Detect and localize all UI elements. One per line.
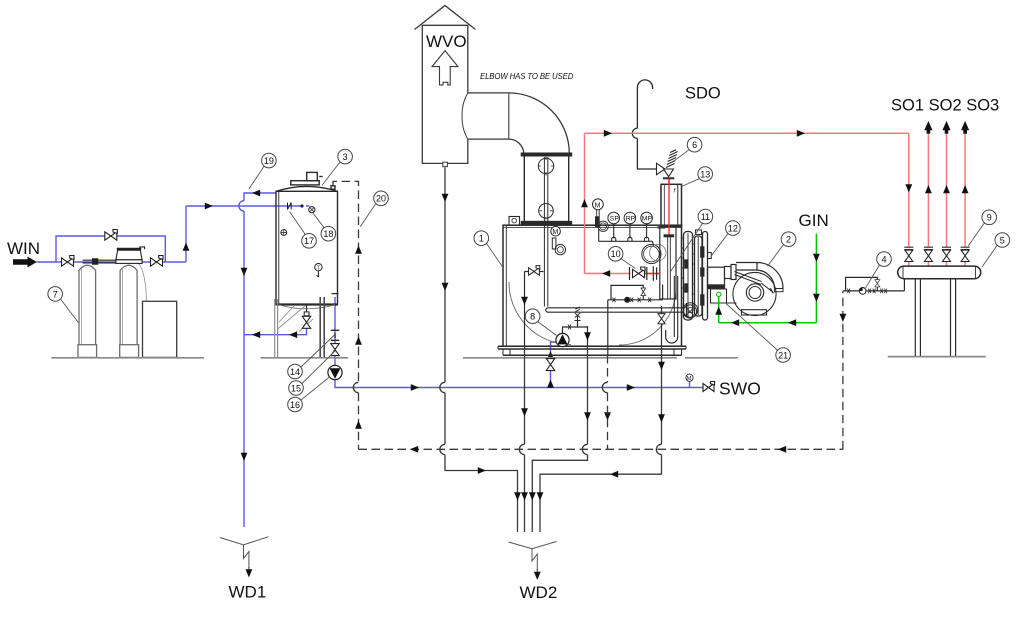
valve relief body xyxy=(657,163,666,174)
pipe steam boiler outlet xyxy=(585,273,631,275)
balloon 12 xyxy=(726,221,741,236)
pump 16 xyxy=(328,365,342,379)
pipe steam SO1 supply xyxy=(908,133,910,247)
relief pump8 xyxy=(575,321,581,328)
arrow WVO drain down 2 xyxy=(442,283,449,291)
arrow riser up xyxy=(183,243,190,251)
piping pump8 discharge xyxy=(563,316,588,334)
leg tank left xyxy=(275,299,278,357)
fitting check pump8 xyxy=(568,325,571,330)
pump 8 boiler feed xyxy=(556,333,569,346)
svg-text:SDO: SDO xyxy=(685,85,721,103)
valve M feedwater xyxy=(593,199,609,232)
arrow dashed20 up 1 xyxy=(355,246,362,254)
leader 17 xyxy=(290,212,306,235)
arrow SO3 up xyxy=(943,185,950,193)
svg-text:10: 10 xyxy=(611,249,621,259)
adapter burner rings xyxy=(725,267,732,279)
drum header xyxy=(898,266,981,279)
node feed dot xyxy=(300,204,303,207)
pipe steam SO2 xyxy=(927,134,929,247)
svg-text:16: 16 xyxy=(290,400,300,410)
balloon 4 xyxy=(877,252,892,267)
base softener tank 1 xyxy=(78,345,97,358)
nub duct bottom xyxy=(443,162,448,166)
svg-text:5: 5 xyxy=(1000,235,1005,245)
elbow duct outer xyxy=(468,93,570,153)
leader 16 xyxy=(301,377,330,400)
hop pump8 drain over dashed xyxy=(582,444,587,454)
svg-text:WD1: WD1 xyxy=(229,583,267,602)
legs header xyxy=(915,279,955,357)
thermometer T xyxy=(315,264,322,271)
pipe steam main riser xyxy=(584,133,586,273)
trap pump dot xyxy=(859,288,866,295)
valve 17 check xyxy=(281,203,322,278)
svg-text:14: 14 xyxy=(290,367,300,377)
arrow steam right 2 xyxy=(797,130,805,137)
arrow funnel line2 down xyxy=(521,492,528,500)
arrow feed right xyxy=(205,203,213,210)
base softener tank 2 xyxy=(120,345,139,358)
tank bottom xyxy=(276,303,338,305)
loop level control xyxy=(608,285,663,300)
hop overflow over feed xyxy=(239,201,244,211)
plate boiler door C xyxy=(703,232,708,321)
meter M SWO xyxy=(686,374,693,381)
spring relief xyxy=(666,150,678,168)
balloon 20 xyxy=(374,191,389,206)
svg-text:1: 1 xyxy=(479,234,484,244)
tank brine xyxy=(143,301,177,357)
hop stack drain over dashed xyxy=(519,444,524,454)
svg-text:20: 20 xyxy=(376,194,386,204)
arrow WVO hollow up xyxy=(432,51,458,85)
svg-text:MP: MP xyxy=(642,216,653,223)
arrow SWO right xyxy=(627,384,635,391)
valve softener control head xyxy=(116,250,142,260)
wire tank outlet standpipe xyxy=(334,297,336,366)
base boiler xyxy=(498,346,686,355)
arrow boilerfeed up 2 xyxy=(547,351,554,359)
stack body xyxy=(524,156,568,222)
leader 6 xyxy=(674,150,689,161)
sensor tank wall xyxy=(281,230,287,236)
svg-text:15: 15 xyxy=(291,383,301,393)
wire boiler feed branch xyxy=(551,342,557,388)
svg-text:9: 9 xyxy=(987,213,992,223)
wire dashed sample xyxy=(607,355,609,449)
leader 5 xyxy=(982,246,997,268)
plate boiler door A xyxy=(684,232,693,321)
svg-text:WD2: WD2 xyxy=(520,583,558,602)
arrow SO1 down xyxy=(905,184,912,192)
leader 11 xyxy=(671,224,703,272)
arrow WVO drain right xyxy=(478,467,486,474)
arrow boilerfeed up 1 xyxy=(547,380,554,388)
flange chamber outlet xyxy=(653,266,656,280)
balloon 8 xyxy=(525,309,540,324)
svg-text:M: M xyxy=(687,376,692,382)
stub valves to header xyxy=(909,262,965,266)
valve gauge drain xyxy=(658,314,665,324)
arrow WD1 down 2 xyxy=(241,453,248,461)
balloon 17 xyxy=(302,234,317,249)
leader 3 xyxy=(322,162,340,185)
strut burner diagonal xyxy=(735,272,772,292)
arrow blowdown down 1 xyxy=(521,297,528,305)
leader 8 xyxy=(538,322,557,336)
arrow gas up burner xyxy=(715,307,722,315)
wire pump16 discharge xyxy=(335,380,703,388)
svg-text:19: 19 xyxy=(264,156,274,166)
svg-text:WVO: WVO xyxy=(426,32,467,51)
hop WVO drain over dashed xyxy=(440,444,445,454)
flange valve10 left xyxy=(630,267,647,280)
manifold pressure gauges xyxy=(599,224,653,246)
balloon 18 xyxy=(321,226,336,241)
arrow pump8 drain down 1 xyxy=(584,332,591,340)
svg-text:3: 3 xyxy=(343,152,348,162)
valve 15 xyxy=(331,344,339,356)
funnel WD1 xyxy=(220,537,269,568)
valve tank bottom drain xyxy=(304,305,309,316)
balloon 21 xyxy=(776,348,791,363)
pipe furnace tube xyxy=(546,308,684,312)
ground header xyxy=(888,356,986,358)
leader 4 xyxy=(865,265,880,289)
wire tank overflow xyxy=(244,193,276,201)
port door bottom xyxy=(683,305,696,318)
tank softener resin 1 xyxy=(79,265,96,345)
wire tank feed header xyxy=(186,205,276,207)
chamber steam outlet xyxy=(660,227,676,300)
arrow stack drain down 2 xyxy=(521,408,528,416)
pipe blowdown horizontal xyxy=(525,271,544,273)
balloon 19 xyxy=(262,153,277,168)
fitting head coupling xyxy=(93,259,98,264)
flange furnace right xyxy=(684,303,687,317)
wire gauge drain xyxy=(661,306,663,346)
valve bypass xyxy=(105,230,118,241)
svg-text:11: 11 xyxy=(701,212,710,222)
svg-text:7: 7 xyxy=(53,289,58,299)
cap header left xyxy=(903,266,975,279)
arrow gauge drain down 2 xyxy=(658,414,665,422)
flange stack bottom xyxy=(521,222,571,225)
leader 1 xyxy=(487,244,504,268)
bracket door top xyxy=(696,230,702,235)
pipe trap line xyxy=(843,279,905,291)
hop WVO drain over blue xyxy=(440,382,445,392)
arrow SO4 up xyxy=(962,185,969,193)
arc furnace right xyxy=(619,288,676,345)
joint duct elbow xyxy=(508,93,510,139)
step boiler top at drum xyxy=(658,225,665,228)
arrow dashed trap down xyxy=(840,314,847,322)
saddle duct junction xyxy=(462,93,468,139)
balloon 7 xyxy=(48,287,63,302)
balloon 11 xyxy=(698,209,713,224)
balloon 16 xyxy=(288,397,303,412)
leader 2 xyxy=(768,245,784,267)
leader 18 xyxy=(313,213,325,228)
leader 19 xyxy=(249,166,264,189)
wire blowdown vertical top xyxy=(524,272,526,347)
gauge SP xyxy=(608,212,620,224)
arrow steam up riser xyxy=(581,199,588,207)
manhole neck xyxy=(307,172,318,180)
nozzle vent stub xyxy=(331,186,335,189)
gauge MP xyxy=(641,212,653,224)
arrow tank drain left 1 xyxy=(289,331,297,338)
arrow dashed header left 1 xyxy=(410,446,418,453)
svg-text:SO1 SO2 SO3: SO1 SO2 SO3 xyxy=(891,97,999,115)
wire pump8 drain vertical xyxy=(587,326,589,346)
arrow gas left 2 xyxy=(731,319,739,326)
valve WIN line 1 xyxy=(62,256,75,267)
duct burner top band xyxy=(736,263,783,289)
pipe steam top header xyxy=(585,132,909,134)
leader 21 xyxy=(726,304,778,351)
arrow WVO drain down 1 xyxy=(442,194,449,202)
manhole plate xyxy=(291,181,319,185)
balloon 3 xyxy=(338,149,353,164)
arrow SO2 bold xyxy=(924,121,932,134)
ground softener xyxy=(51,357,204,359)
arrow SO4 bold xyxy=(961,121,969,134)
pipe gas riser burner xyxy=(718,297,720,323)
roof WVO xyxy=(415,6,476,30)
wire tank bottom drain xyxy=(244,328,307,335)
balloon 6 xyxy=(687,137,702,152)
svg-text:18: 18 xyxy=(323,229,333,239)
arrow WIN bold inlet xyxy=(13,257,37,268)
damper lower xyxy=(539,204,554,219)
balloon 5 xyxy=(995,233,1010,248)
wire SDO discharge xyxy=(632,80,656,169)
duct WVO tower xyxy=(422,25,468,163)
svg-text:21: 21 xyxy=(778,350,788,360)
foot band end xyxy=(775,289,784,292)
wire WIN inlet main line xyxy=(37,261,187,263)
loop trap bypass xyxy=(846,277,878,291)
arrow gauge drain down 1 xyxy=(658,362,665,370)
dark segs door xyxy=(701,247,704,257)
ground feedwater tank xyxy=(260,357,348,359)
pipe softener head xyxy=(83,247,145,264)
wire softener bypass loop xyxy=(56,236,165,262)
leader 13 xyxy=(682,179,700,187)
leader 20 xyxy=(360,204,375,227)
tank softener resin 2 xyxy=(120,265,137,345)
pipe steam bright stub xyxy=(645,178,670,273)
balloon 1 xyxy=(474,231,489,246)
svg-text:M: M xyxy=(595,202,601,209)
valve boiler feed inlet xyxy=(546,359,554,371)
arrow overflow left xyxy=(252,190,260,197)
balloon 2 xyxy=(781,232,796,247)
valve level loop xyxy=(641,288,646,296)
fitting tank outlet top xyxy=(332,293,339,295)
port furnace flange circle xyxy=(683,303,697,317)
svg-text:8: 8 xyxy=(530,312,535,322)
svg-text:ELBOW HAS TO BE USED: ELBOW HAS TO BE USED xyxy=(480,72,574,81)
arrow funnel line1 down xyxy=(514,492,521,500)
hop dashed20 over blue feed xyxy=(353,382,358,392)
balloon 9 xyxy=(982,210,997,225)
svg-text:12: 12 xyxy=(728,224,738,234)
bracket burner mount xyxy=(711,289,737,303)
arrow funnel line3 down xyxy=(529,492,536,500)
hop sample dashed over blue feed xyxy=(602,382,607,392)
valve WIN line 2 xyxy=(151,256,164,267)
valve SO1 xyxy=(904,247,913,261)
svg-text:M: M xyxy=(552,229,558,236)
wire dashed bottom header xyxy=(359,448,843,450)
tank feedwater body xyxy=(276,191,338,304)
elbow duct inner xyxy=(468,139,524,154)
actuator M damper xyxy=(551,226,566,254)
leader 14 xyxy=(301,335,335,368)
sightglass boiler xyxy=(642,244,666,263)
leader 12 xyxy=(711,234,728,257)
pipe steam SO4 xyxy=(964,134,966,247)
pipe gas drop xyxy=(815,234,817,323)
leader 15 xyxy=(302,351,335,384)
arrow dashed20 up 2 xyxy=(355,337,362,345)
bolts door ticks xyxy=(681,238,684,308)
arrow WD2 funnel down xyxy=(536,569,538,572)
arrow SO3 bold xyxy=(942,121,950,134)
scroll burner volute xyxy=(733,272,776,315)
arrow funnel line4 down xyxy=(537,492,544,500)
svg-text:RP: RP xyxy=(626,216,636,223)
bolt 12 xyxy=(708,253,712,259)
sparger 18 xyxy=(309,207,315,213)
arrow WD1 down 1 xyxy=(241,268,248,276)
leader 9 xyxy=(968,223,984,246)
wire sample line solid part xyxy=(607,300,609,355)
arrow sample dashed down xyxy=(604,412,611,420)
valve blowdown bowtie xyxy=(529,266,540,276)
valve SO4 xyxy=(961,247,970,261)
arrow gauge drain left xyxy=(610,471,618,478)
fitting ticks trap xyxy=(847,289,887,294)
wire WVO drain xyxy=(445,167,518,532)
pedestal burner xyxy=(742,310,767,315)
wire drain to WD1 xyxy=(243,211,245,527)
gauge RP xyxy=(624,212,636,224)
ground boiler xyxy=(463,357,738,359)
arrow gas down 2 xyxy=(813,294,820,302)
arrow steam left to valve10 xyxy=(602,270,610,277)
shell boiler xyxy=(503,225,682,346)
column gauge glass xyxy=(674,276,677,337)
rod damper shaft xyxy=(544,157,547,307)
flange red termination xyxy=(664,235,674,237)
valve SWO end xyxy=(703,382,715,392)
damper upper xyxy=(538,158,553,173)
svg-text:13: 13 xyxy=(700,169,710,179)
arrow steam right 1 xyxy=(604,130,612,137)
sensor level dot xyxy=(625,297,630,302)
base pump8 xyxy=(556,345,569,347)
leader 7 xyxy=(61,299,79,323)
funnel WD2 xyxy=(509,542,557,571)
arrow dashed header left 2 xyxy=(778,446,786,453)
fitting 14 strainer bars xyxy=(331,294,339,341)
arrow gas left 1 xyxy=(788,319,796,326)
balloon 10 xyxy=(608,247,623,262)
wire stack blowdown drain xyxy=(524,346,526,532)
plate boiler door B xyxy=(695,236,703,316)
svg-text:WIN: WIN xyxy=(7,239,40,258)
pipe gas horizontal xyxy=(719,322,817,324)
wire dashed 20 riser xyxy=(333,181,359,382)
svg-text:17: 17 xyxy=(304,236,314,246)
arrow feedline right xyxy=(411,384,419,391)
arrow WD1 funnel down xyxy=(248,567,250,570)
contour brine shoulder xyxy=(139,264,147,302)
svg-text:SP: SP xyxy=(610,216,620,223)
balloon 13 xyxy=(698,167,713,182)
wire inside-tank feed xyxy=(276,205,310,207)
brace tank legs xyxy=(278,306,313,332)
arrow pump8 drain down 2 xyxy=(584,412,591,420)
valve SO3 xyxy=(942,247,951,261)
gun burner xyxy=(708,267,725,285)
drum steam 13 xyxy=(661,184,682,226)
pipe steam SO3 xyxy=(946,134,948,247)
valve 10 steam outlet xyxy=(633,267,646,278)
wire pump8 drain xyxy=(532,346,587,532)
svg-text:4: 4 xyxy=(881,255,886,265)
wire dashed trap drop xyxy=(842,291,844,449)
svg-text:SWO: SWO xyxy=(719,379,761,399)
svg-text:GIN: GIN xyxy=(799,211,829,230)
leader 10 xyxy=(621,259,636,269)
wire riser to tank feed xyxy=(185,206,187,262)
dome feedwater tank xyxy=(276,186,338,191)
arrow tank drain left 2 xyxy=(252,331,260,338)
svg-text:6: 6 xyxy=(692,140,697,150)
balloon 15 xyxy=(289,381,304,396)
balloon 14 xyxy=(288,364,303,379)
arrow gas down 1 xyxy=(813,254,820,262)
valve SO2 xyxy=(924,247,933,261)
hop gauge drain over dashed xyxy=(656,444,661,454)
arrow SO2 up xyxy=(925,185,932,193)
wire gauge drain lower xyxy=(540,346,662,532)
arc furnace left xyxy=(509,282,571,345)
flange stack top xyxy=(521,153,571,156)
wire SWO meter stem xyxy=(689,381,691,387)
hop SDO over steam line xyxy=(632,128,637,138)
svg-text:2: 2 xyxy=(786,235,791,245)
fitting ticks level line xyxy=(613,298,652,303)
arrow dashed20 up 3 xyxy=(355,421,362,429)
nozzle gas inlet xyxy=(717,292,721,296)
lug lifting xyxy=(509,217,520,226)
leg tank right standpipe xyxy=(320,297,324,357)
valve trap bypass xyxy=(875,280,880,287)
